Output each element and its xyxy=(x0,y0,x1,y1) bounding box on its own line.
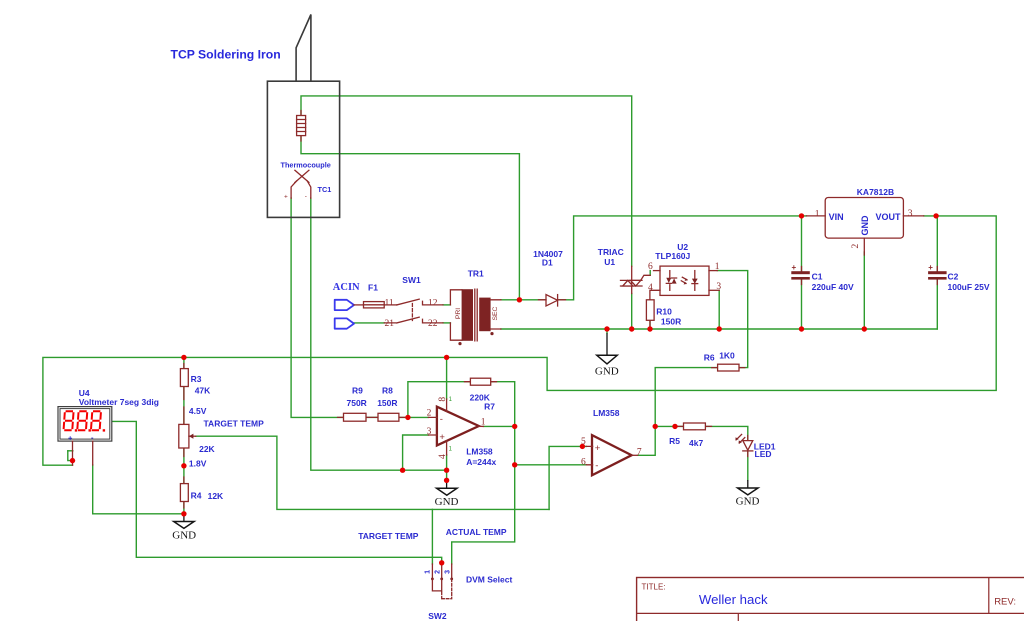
resistor R8 xyxy=(378,413,399,421)
svg-text:3: 3 xyxy=(716,282,721,292)
wire R8 to opamp1 pin2 xyxy=(399,416,429,418)
svg-text:R10: R10 xyxy=(656,307,672,317)
svg-text:TARGET TEMP: TARGET TEMP xyxy=(358,531,419,541)
wire U4 plus elbow xyxy=(68,451,73,461)
svg-text:GND: GND xyxy=(736,496,760,508)
svg-text:6: 6 xyxy=(581,457,586,467)
svg-text:+: + xyxy=(284,194,288,201)
wire R4 bottom to gnd node xyxy=(183,502,185,514)
wire U4 output to SW2 pin2 xyxy=(112,421,442,564)
svg-text:22: 22 xyxy=(428,319,438,329)
svg-text:Voltmeter 7seg 3dig: Voltmeter 7seg 3dig xyxy=(79,397,159,407)
op-amp U3B LM358 xyxy=(586,435,637,475)
svg-text:3: 3 xyxy=(908,209,913,219)
svg-text:1: 1 xyxy=(481,418,486,428)
svg-text:DVM Select: DVM Select xyxy=(466,575,512,585)
svg-text:12: 12 xyxy=(428,299,438,309)
wire ACIN row2 to SW1 xyxy=(354,322,384,324)
wire C2 bottom xyxy=(936,280,938,329)
wire opamp1 pin4 to gnd xyxy=(446,455,448,480)
ground symbol LED1 xyxy=(736,480,760,508)
node bus U2pin3 junction xyxy=(717,326,722,331)
node rail pin8 junction xyxy=(444,355,449,360)
svg-text:+: + xyxy=(792,263,797,272)
svg-text:R4: R4 xyxy=(191,490,202,500)
svg-text:LM358: LM358 xyxy=(593,408,620,418)
svg-text:TCP Soldering Iron: TCP Soldering Iron xyxy=(171,48,281,62)
svg-text:R6: R6 xyxy=(704,353,715,363)
wire R5 right to LED1 xyxy=(705,426,747,440)
wire triac bottom to bus xyxy=(631,294,633,330)
wire opamp2 pin5 to target line xyxy=(549,446,586,509)
resistor R9 xyxy=(344,413,367,421)
node pin6 junction xyxy=(512,462,517,467)
connector ACIN pad 1 xyxy=(335,300,364,310)
svg-text:ACIN: ACIN xyxy=(333,282,360,293)
svg-text:SW1: SW1 xyxy=(402,275,421,285)
svg-text:U1: U1 xyxy=(604,257,615,267)
voltage regulator KA7812B xyxy=(806,198,923,256)
svg-text:D1: D1 xyxy=(542,258,553,268)
svg-text:SEC: SEC xyxy=(492,306,499,320)
svg-text:SW2: SW2 xyxy=(428,611,447,621)
wire regulator gnd pin2 to bus xyxy=(863,252,865,329)
svg-text:GND: GND xyxy=(595,365,619,377)
switch SW1 pole 1 xyxy=(397,299,443,305)
wire triac gate to U2 pin6 xyxy=(649,271,651,276)
node SW2 pin2 junction xyxy=(439,560,444,565)
svg-text:1K0: 1K0 xyxy=(719,351,735,361)
svg-text:F1: F1 xyxy=(368,283,378,293)
transformer TR1 xyxy=(450,289,501,345)
wire SW1 pin12 to primary xyxy=(443,304,450,306)
switch SW1 link dashed xyxy=(411,304,413,321)
node secondary-top junction xyxy=(517,297,522,302)
wire R7 right to output column and to SW2 pin3 xyxy=(452,382,515,564)
node bus triac junction xyxy=(629,326,634,331)
svg-text:+: + xyxy=(439,432,445,443)
wire diode cathode to VIN xyxy=(559,216,806,300)
svg-text:-: - xyxy=(440,414,443,425)
svg-text:R5: R5 xyxy=(669,436,680,446)
pin stubs dark red xyxy=(183,364,185,509)
wire thermocouple plus to R9 xyxy=(291,198,343,417)
resistor R4 xyxy=(180,484,188,502)
svg-text:C2: C2 xyxy=(948,272,959,282)
node pin4 junction a xyxy=(444,468,449,473)
svg-text:-: - xyxy=(595,460,598,471)
ground symbol opamp1 pin4 xyxy=(435,480,459,508)
svg-text:ACTUAL TEMP: ACTUAL TEMP xyxy=(446,527,507,537)
svg-text:-: - xyxy=(305,193,307,200)
voltmeter U4 display xyxy=(58,407,112,466)
wire feedback to R7 xyxy=(408,382,471,418)
svg-text:C1: C1 xyxy=(812,272,823,282)
ground symbol R4 xyxy=(172,514,196,542)
svg-text:7: 7 xyxy=(637,447,642,457)
svg-text:VIN: VIN xyxy=(829,212,844,222)
potentiometer 22K target temp xyxy=(179,424,196,448)
svg-text:TRIAC: TRIAC xyxy=(598,247,624,257)
thermocouple TC1 xyxy=(284,170,311,200)
svg-text:VOUT: VOUT xyxy=(876,212,902,222)
node bus gnd junction xyxy=(604,326,609,331)
capacitor C1 xyxy=(791,263,810,280)
switch SW2 DVM select xyxy=(425,563,454,599)
resistor R5 xyxy=(684,423,706,430)
triac U1 xyxy=(621,266,651,293)
wire R3 to pot xyxy=(183,387,185,425)
node bus C1 junction xyxy=(799,326,804,331)
svg-text:TITLE:: TITLE: xyxy=(642,582,666,591)
wire gnd branch at bus xyxy=(606,329,608,333)
svg-text:GND: GND xyxy=(860,215,870,236)
node R6 output junction xyxy=(653,424,658,429)
node feedback junction xyxy=(405,415,410,420)
svg-text:R8: R8 xyxy=(382,385,393,395)
svg-text:KA7812B: KA7812B xyxy=(857,187,894,197)
svg-text:150R: 150R xyxy=(377,398,397,408)
svg-text:1: 1 xyxy=(425,570,432,574)
svg-text:R3: R3 xyxy=(191,374,202,384)
wire opamp2 output pin7 xyxy=(638,426,684,455)
node R4 gnd junction xyxy=(181,511,186,516)
wire opamp1 pin8 supply xyxy=(446,357,448,399)
wire pot to R4 node 1.8V xyxy=(183,448,185,484)
svg-text:Weller hack: Weller hack xyxy=(699,592,768,607)
wire C1 bottom xyxy=(801,280,803,329)
resistor R3 xyxy=(180,369,188,387)
svg-text:6: 6 xyxy=(648,262,653,272)
svg-text:3: 3 xyxy=(427,427,432,437)
title block frame xyxy=(637,578,1024,621)
resistor R7 xyxy=(470,378,490,385)
wire U2 pin1 to R6 right xyxy=(717,271,747,368)
svg-text:A=244x: A=244x xyxy=(466,457,496,467)
wire U4 minus to gnd node xyxy=(93,465,184,514)
svg-text:1: 1 xyxy=(815,210,820,220)
heater element resistor xyxy=(297,116,306,136)
wire thermocouple minus to opamp1 xyxy=(311,198,447,470)
svg-text:GND: GND xyxy=(435,496,459,508)
switch SW1 pole 2 xyxy=(384,317,443,323)
svg-text:8: 8 xyxy=(438,397,448,402)
wire SW1 pin22 to primary xyxy=(443,322,450,324)
svg-text:PRI: PRI xyxy=(455,308,462,319)
svg-text:4k7: 4k7 xyxy=(689,438,703,448)
svg-text:4: 4 xyxy=(648,283,653,293)
svg-text:220uF 40V: 220uF 40V xyxy=(812,282,854,292)
optocoupler U2 xyxy=(650,266,719,300)
wire R9 to R8 xyxy=(366,416,378,418)
wire R6 left to output node xyxy=(655,368,717,427)
svg-text:TLP160J: TLP160J xyxy=(655,251,690,261)
svg-text:150R: 150R xyxy=(661,317,681,327)
node 1.8V junction xyxy=(181,463,186,468)
op-amp U3A LM358 xyxy=(428,399,483,455)
svg-text:1: 1 xyxy=(715,262,720,272)
resistor R6 xyxy=(718,364,739,371)
svg-text:750R: 750R xyxy=(347,398,367,408)
wire pot wiper target temp line xyxy=(196,436,549,509)
soldering iron body xyxy=(267,15,339,218)
svg-text:LED: LED xyxy=(755,449,772,459)
wire 12V rail VOUT to U4 xyxy=(43,216,996,465)
ground symbol near triac xyxy=(595,333,619,377)
node pin4 junction b xyxy=(444,478,449,483)
wire bus neutral xyxy=(501,328,937,330)
wire R3 top xyxy=(183,357,185,368)
svg-text:TR1: TR1 xyxy=(468,269,484,279)
node R5 junction xyxy=(672,424,677,429)
wire secondary top to diode D1 anode xyxy=(501,299,546,301)
svg-text:22K: 22K xyxy=(199,444,215,454)
svg-text:3: 3 xyxy=(444,570,451,574)
wire U2 pin3 to bus xyxy=(718,290,720,329)
wire C2 top xyxy=(936,216,938,271)
connector ACIN pad 2 xyxy=(335,318,354,328)
svg-text:2: 2 xyxy=(851,244,861,249)
svg-text:4.5V: 4.5V xyxy=(189,406,207,416)
wire LED1 cathode down xyxy=(747,451,749,480)
wire heater top to triac xyxy=(301,96,632,266)
svg-text:2: 2 xyxy=(427,409,432,419)
node rail R3 junction xyxy=(181,355,186,360)
svg-text:+: + xyxy=(928,263,933,272)
svg-text:47K: 47K xyxy=(195,386,211,396)
fuse F1 xyxy=(364,302,397,308)
node U4 plus junction xyxy=(70,458,75,463)
node output1 junction xyxy=(512,424,517,429)
svg-text:GND: GND xyxy=(172,530,196,542)
wire heater bottom to secondary-top node xyxy=(301,136,519,300)
node pin3 junction xyxy=(400,468,405,473)
svg-text:21: 21 xyxy=(385,319,395,329)
capacitor C2 xyxy=(928,263,947,280)
diode D1 xyxy=(539,295,566,306)
svg-text:R7: R7 xyxy=(484,401,495,411)
wire opamp1 pin1 output xyxy=(483,425,514,427)
LED LED1 xyxy=(735,434,752,451)
node bus regulator junction xyxy=(862,326,867,331)
svg-text:100uF 25V: 100uF 25V xyxy=(948,282,990,292)
svg-text:LM358: LM358 xyxy=(466,447,493,457)
svg-text:R9: R9 xyxy=(352,385,363,395)
wire SW2 pin1 branch xyxy=(431,509,433,564)
node pin5 junction xyxy=(580,444,585,449)
wire C1 top xyxy=(801,216,803,271)
svg-text:12K: 12K xyxy=(208,491,224,501)
wire R10 bottom to bus xyxy=(649,320,651,329)
svg-text:Thermocouple: Thermocouple xyxy=(281,161,331,170)
svg-text:4: 4 xyxy=(438,454,448,459)
wire opamp1 pin3 branch xyxy=(403,435,429,470)
node VIN junction xyxy=(799,213,804,218)
node VOUT junction xyxy=(933,213,938,218)
svg-text:REV:: REV: xyxy=(994,597,1016,608)
svg-text:11: 11 xyxy=(385,299,394,309)
node bus R10 junction xyxy=(647,326,652,331)
svg-text:2: 2 xyxy=(434,570,441,574)
svg-text:1.8V: 1.8V xyxy=(189,458,207,468)
svg-text:TC1: TC1 xyxy=(318,185,332,194)
svg-text:TARGET TEMP: TARGET TEMP xyxy=(204,419,265,429)
wire opamp2 pin6 xyxy=(515,464,587,466)
svg-text:+: + xyxy=(595,443,601,454)
resistor R10 xyxy=(646,300,654,321)
